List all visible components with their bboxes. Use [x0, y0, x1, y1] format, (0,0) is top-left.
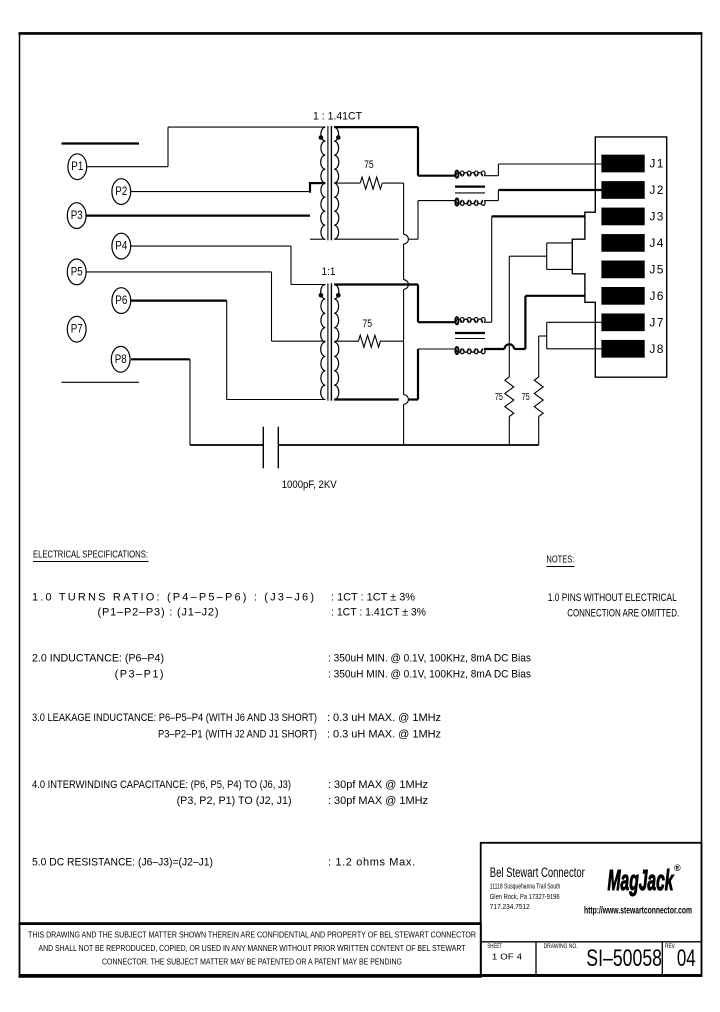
- svg-text:P6: P6: [115, 295, 127, 307]
- svg-text:P1: P1: [71, 161, 83, 173]
- svg-text:P2: P2: [115, 186, 127, 198]
- svg-text:04: 04: [677, 945, 696, 972]
- svg-text:NOTES:: NOTES:: [546, 555, 574, 566]
- svg-text:J7: J7: [649, 315, 663, 329]
- svg-text:J5: J5: [649, 262, 663, 276]
- svg-text:: 30pf MAX @ 1MHz: : 30pf MAX @ 1MHz: [328, 795, 428, 807]
- svg-text:75: 75: [522, 392, 530, 403]
- svg-text:: 30pf MAX @ 1MHz: : 30pf MAX @ 1MHz: [328, 779, 428, 791]
- svg-text:THIS DRAWING AND THE SUBJECT M: THIS DRAWING AND THE SUBJECT MATTER SHOW…: [28, 931, 476, 940]
- svg-text:: 1CT : 1CT ± 3%: : 1CT : 1CT ± 3%: [331, 591, 415, 603]
- svg-text:P5: P5: [71, 266, 83, 278]
- svg-text:1.0 TURNS RATIO: (P4–P5–P6) :: 1.0 TURNS RATIO: (P4–P5–P6) : (J3–J6): [32, 591, 314, 603]
- svg-text:5.0 DC RESISTANCE: (J6–J3)=(J: 5.0 DC RESISTANCE: (J6–J3)=(J2–J1): [32, 857, 213, 869]
- svg-text:®: ®: [674, 863, 681, 873]
- svg-text:(P3, P2, P1) TO (J2, J1): (P3, P2, P1) TO (J2, J1): [177, 795, 292, 807]
- svg-text:J3: J3: [649, 209, 663, 223]
- svg-text:P3: P3: [71, 210, 83, 222]
- svg-text:4.0 INTERWINDING CAPACITANCE:: 4.0 INTERWINDING CAPACITANCE: (P6, P5, P…: [32, 779, 291, 791]
- svg-text:P4: P4: [115, 241, 128, 253]
- svg-text:J6: J6: [649, 289, 663, 303]
- svg-text:1 : 1.41CT: 1 : 1.41CT: [313, 110, 362, 122]
- svg-text:http://www.stewartconnector.co: http://www.stewartconnector.com: [584, 905, 692, 917]
- svg-text:CONNECTION ARE OMITTED.: CONNECTION ARE OMITTED.: [567, 607, 679, 619]
- svg-text:11118 Susquehanna Trail South: 11118 Susquehanna Trail South: [490, 881, 561, 890]
- svg-text:1:1: 1:1: [322, 266, 336, 278]
- svg-text:P8: P8: [115, 354, 127, 366]
- svg-text:P3–P2–P1 (WITH J2 AND J1 SHORT: P3–P2–P1 (WITH J2 AND J1 SHORT): [158, 729, 317, 741]
- svg-text:: 350uH MIN. @ 0.1V, 100KHz, 8: : 350uH MIN. @ 0.1V, 100KHz, 8mA DC Bias: [328, 669, 531, 681]
- svg-text:1 OF 4: 1 OF 4: [492, 952, 523, 962]
- svg-text:75: 75: [495, 392, 503, 403]
- svg-text:: 1.2 ohms Max.: : 1.2 ohms Max.: [328, 857, 415, 869]
- svg-text:J2: J2: [649, 183, 663, 197]
- svg-text:DRAWING NO.: DRAWING NO.: [544, 944, 578, 950]
- svg-text:REV.: REV.: [665, 944, 676, 950]
- svg-text:J8: J8: [649, 342, 663, 356]
- svg-text:SI–50058: SI–50058: [586, 945, 662, 972]
- svg-text:P7: P7: [71, 324, 83, 336]
- svg-text:AND SHALL NOT BE REPRODUCED, C: AND SHALL NOT BE REPRODUCED, COPIED, OR …: [39, 944, 466, 953]
- svg-text:: 0.3 uH MAX. @ 1MHz: : 0.3 uH MAX. @ 1MHz: [327, 712, 441, 724]
- svg-text:MagJack: MagJack: [608, 865, 675, 897]
- svg-text:: 0.3 uH MAX. @ 1MHz: : 0.3 uH MAX. @ 1MHz: [327, 729, 441, 741]
- svg-text:(P1–P2–P3) : (J1–J2): (P1–P2–P3) : (J1–J2): [98, 606, 219, 618]
- svg-text:75: 75: [364, 159, 374, 171]
- svg-text:2.0 INDUCTANCE: (P6–P4): 2.0 INDUCTANCE: (P6–P4): [32, 653, 164, 665]
- svg-text:: 350uH MIN. @ 0.1V, 100KHz, 8: : 350uH MIN. @ 0.1V, 100KHz, 8mA DC Bias: [328, 653, 531, 665]
- svg-text:ELECTRICAL SPECIFICATIONS:: ELECTRICAL SPECIFICATIONS:: [33, 550, 148, 561]
- svg-text:CONNECTOR. THE SUBJECT MATTER: CONNECTOR. THE SUBJECT MATTER MAY BE PAT…: [102, 958, 402, 967]
- svg-text:(P3–P1): (P3–P1): [115, 669, 164, 681]
- svg-text:1.0 PINS WITHOUT ELECTRICAL: 1.0 PINS WITHOUT ELECTRICAL: [548, 592, 677, 604]
- svg-text:SHEET: SHEET: [487, 944, 502, 950]
- svg-text:J1: J1: [649, 157, 663, 171]
- svg-text:Bel Stewart Connector: Bel Stewart Connector: [490, 865, 585, 880]
- svg-text:Glen Rock, Pa 17327-9196: Glen Rock, Pa 17327-9196: [490, 892, 560, 901]
- svg-text:75: 75: [363, 318, 373, 330]
- svg-text:3.0 LEAKAGE INDUCTANCE: P6–: 3.0 LEAKAGE INDUCTANCE: P6–P5–P4 (WITH J…: [32, 712, 317, 724]
- svg-text:717.234.7512: 717.234.7512: [490, 902, 530, 911]
- svg-text:: 1CT : 1.41CT ± 3%: : 1CT : 1.41CT ± 3%: [331, 606, 426, 618]
- svg-text:J4: J4: [649, 236, 663, 250]
- svg-text:1000pF, 2KV: 1000pF, 2KV: [282, 479, 338, 491]
